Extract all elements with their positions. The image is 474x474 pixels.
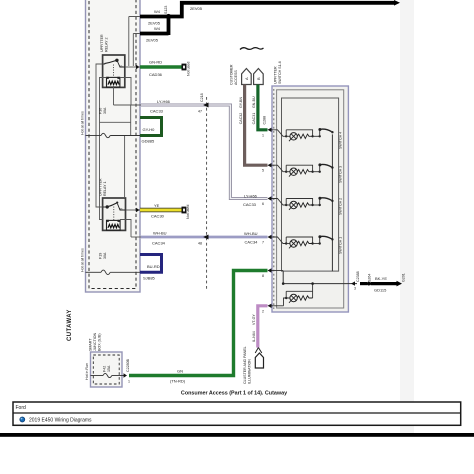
svg-text:15A: 15A — [107, 365, 111, 372]
svg-text:CAC32: CAC32 — [239, 113, 243, 125]
svg-text:2EV05: 2EV05 — [190, 6, 203, 11]
svg-text:(TN-RD): (TN-RD) — [170, 379, 186, 384]
svg-text:2EV05: 2EV05 — [146, 38, 159, 43]
wire WH-BU CAC34 (lavender) K1 coil to switch pin 7 — [131, 231, 268, 246]
break squiggle above customer access — [240, 48, 264, 50]
svg-text:47: 47 — [198, 110, 202, 114]
wire: K2 coil 85 loop to K1 coil 85 — [100, 78, 107, 220]
switch pin 8 connector arrow — [262, 268, 283, 278]
svg-text:30A: 30A — [103, 107, 107, 114]
switch cell 2 (SWITCH 3) lamp L3 — [285, 163, 334, 176]
svg-text:30: 30 — [119, 64, 123, 68]
svg-text:RELAY 2: RELAY 2 — [105, 38, 109, 52]
svg-text:1: 1 — [262, 133, 264, 137]
svg-text:F42: F42 — [103, 366, 107, 372]
connector (not used) on green wire — [182, 64, 187, 71]
svg-text:SMART: SMART — [89, 338, 93, 351]
svg-text:CAC33: CAC33 — [150, 109, 164, 114]
wire CAD36 GN-RD relay K2 output (green, not used) — [125, 60, 191, 78]
svg-text:2019 E450 Wiring Diagrams: 2019 E450 Wiring Diagrams — [29, 417, 92, 423]
svg-text:ILLUMINATION: ILLUMINATION — [248, 359, 252, 384]
relay K2 (UPFITTER RELAY 2) box — [103, 55, 125, 87]
wire: fuse F30 output down to relay K1 contact — [124, 136, 126, 199]
wire CAC31 GN-BU connector B to switch pin 1 — [252, 85, 267, 130]
wire: coil feed jumper to fuse F30 line — [100, 105, 131, 136]
svg-text:CAC31: CAC31 — [252, 113, 256, 125]
svg-text:GN: GN — [177, 369, 183, 374]
smart junction box (SJB) label — [89, 332, 102, 351]
svg-text:Ford: Ford — [16, 405, 27, 411]
ground exit wire pin3 to G201 — [348, 271, 406, 292]
svg-text:RELAY 1: RELAY 1 — [103, 182, 107, 196]
switch cell 1 lever — [319, 129, 321, 136]
ground return path inside switch box — [283, 271, 347, 283]
switch pin 5 connector arrow — [262, 163, 286, 173]
wire 2EV05 off-page (thick black, top) — [167, 0, 400, 17]
svg-text:F19: F19 — [99, 253, 103, 259]
switch pin 7 connector arrow — [262, 235, 286, 245]
svg-text:6: 6 — [262, 202, 264, 206]
svg-text:GY-BN: GY-BN — [239, 97, 243, 108]
svg-text:Not used: Not used — [186, 205, 190, 219]
switch cell 3 resistor — [297, 203, 312, 207]
relay K2 coil — [107, 77, 120, 87]
C218 pin 47 crossing — [198, 93, 209, 113]
inline connector C218 dashed line — [206, 97, 208, 290]
svg-text:SWITCH 3: SWITCH 3 — [339, 166, 343, 183]
svg-text:UPFITTER: UPFITTER — [100, 34, 104, 52]
switch cell 4 resistor — [297, 241, 312, 245]
svg-text:BU-RD: BU-RD — [147, 264, 160, 269]
switch cell 4 (SWITCH 1) lamp L1 — [285, 235, 334, 248]
relay K1 coil — [107, 220, 121, 230]
svg-text:WH-BU: WH-BU — [244, 231, 258, 236]
switch cell 3 (SWITCH 2) lamp L2 — [285, 197, 334, 210]
svg-text:GN-BU: GN-BU — [252, 96, 256, 108]
svg-text:WH-BU: WH-BU — [153, 231, 167, 236]
wire W4 2EV05 feed 1 (thick black) — [140, 9, 169, 26]
svg-text:1: 1 — [128, 380, 130, 384]
svg-text:BK-YE: BK-YE — [375, 276, 387, 281]
wire BU-RD SJB85 jumper loop (navy U) — [140, 255, 162, 281]
fuse F30 30A label — [99, 107, 108, 114]
svg-text:SJB85: SJB85 — [143, 276, 156, 281]
fuse F19 30A label — [99, 252, 108, 259]
connector C2280B label — [126, 358, 130, 383]
switch cell 3 lever — [319, 198, 321, 205]
svg-text:3: 3 — [354, 287, 356, 291]
svg-text:GD885: GD885 — [142, 139, 155, 144]
connector A (customer access) — [242, 69, 252, 85]
fuse F42 15A label — [103, 365, 112, 372]
svg-text:G201: G201 — [402, 273, 406, 282]
svg-text:30: 30 — [119, 207, 123, 211]
footer table — [13, 402, 461, 425]
connector (not used) on yellow wire — [182, 207, 187, 214]
relay K1 pin 30 stub — [118, 204, 126, 210]
switch pin 2 connector arrow — [262, 304, 284, 314]
svg-text:S264: S264 — [367, 274, 371, 282]
relay K2 contact lever — [104, 61, 115, 64]
svg-text:Hot at all times: Hot at all times — [81, 111, 85, 135]
svg-text:Hot at all times: Hot at all times — [81, 248, 85, 272]
junction S123 — [164, 6, 171, 20]
switch pin 6 connector arrow — [262, 196, 286, 206]
illumination lamp cell — [284, 282, 314, 305]
svg-text:CAC34: CAC34 — [245, 239, 259, 244]
svg-text:B: B — [256, 77, 261, 80]
upfitter switch inner box — [277, 90, 344, 308]
wire GN CX431 from SJB to switch pin 8 (green) — [129, 271, 268, 384]
relay K2 plunger dashed link — [113, 65, 115, 78]
switch cell 1 resistor — [297, 134, 312, 138]
relay K1 plunger dashed link — [113, 207, 115, 221]
svg-text:YE: YE — [154, 203, 160, 208]
svg-text:8: 8 — [262, 274, 264, 278]
svg-text:2EV05: 2EV05 — [148, 21, 161, 26]
svg-text:Consumer Access (Part 1 of 14): Consumer Access (Part 1 of 14). Cutaway — [181, 391, 287, 397]
battery junction box (BJB) outer border — [86, 0, 141, 292]
relay K2 label UPFITTER RELAY 2 — [100, 34, 109, 52]
svg-text:CLUSTER AND PANEL: CLUSTER AND PANEL — [243, 346, 247, 384]
svg-text:W4: W4 — [154, 9, 161, 14]
illumination resistor — [297, 296, 312, 300]
bottom black bar — [0, 433, 474, 437]
switch cell 4 lever — [319, 237, 321, 244]
switch cell 2 resistor — [297, 170, 312, 174]
relay K1 label UPFITTER RELAY 1 — [99, 178, 108, 196]
svg-text:F30: F30 — [99, 108, 103, 114]
svg-text:UPFITTER: UPFITTER — [274, 66, 278, 84]
relay K1 (UPFITTER RELAY 1) box — [103, 198, 126, 230]
svg-text:GN-RD: GN-RD — [149, 60, 162, 65]
svg-text:LY-H66: LY-H66 — [244, 194, 258, 199]
upfitter switch cells box — [282, 98, 339, 271]
relay K2 pin 30 stub — [118, 62, 125, 68]
svg-text:VT-GY: VT-GY — [252, 314, 256, 325]
svg-text:W4: W4 — [154, 26, 161, 31]
wire CAC32 GY-BN connector A to switch pin 5 — [239, 85, 268, 166]
wire GN-WD GD885 jumper loop (dark green U) — [140, 118, 162, 144]
fuse F19 30A — [86, 270, 141, 274]
switch bus vertical — [331, 134, 333, 271]
svg-text:CUSTOMER: CUSTOMER — [230, 64, 234, 85]
connector B (customer access) — [254, 69, 264, 85]
svg-text:SWITCH S1-6: SWITCH S1-6 — [278, 61, 282, 84]
svg-text:GY-H0: GY-H0 — [143, 127, 156, 132]
svg-text:LY-H66: LY-H66 — [157, 99, 171, 104]
relay K1 contact lever — [107, 203, 116, 207]
svg-text:CAC30: CAC30 — [151, 214, 165, 219]
upfitter switch S1-6 outer box — [272, 86, 348, 312]
wire YE CAC30 relay K1 output (yellow, not used) — [126, 203, 191, 219]
svg-text:CAD36: CAD36 — [149, 72, 163, 77]
switch pin 1 connector arrow — [262, 128, 286, 138]
fuse F42 15A — [91, 373, 128, 377]
svg-text:CUTAWAY: CUTAWAY — [67, 309, 73, 341]
svg-text:30A: 30A — [103, 252, 107, 259]
wire W4 2EV05 feed 2 (thick black) — [140, 15, 169, 43]
switch cell 2 lever — [319, 165, 321, 172]
svg-text:C288: C288 — [263, 116, 267, 125]
wire: K2 coil 86 to gray wire — [120, 78, 131, 106]
svg-text:BOX (SJB): BOX (SJB) — [98, 333, 102, 351]
svg-text:ACCESS: ACCESS — [234, 70, 238, 85]
svg-text:Hot in Run: Hot in Run — [85, 363, 89, 380]
fuse F30 30A — [86, 133, 141, 137]
wire: K1 coil 86 to lavender wire — [120, 220, 131, 238]
label CUSTOMER ACCESS — [230, 64, 239, 85]
svg-text:5: 5 — [262, 169, 264, 173]
svg-text:JUNCTION: JUNCTION — [93, 332, 97, 351]
wire: K2 switch feed loop to K1 (left vertical) — [96, 64, 103, 207]
svg-text:GD115: GD115 — [374, 288, 387, 293]
svg-text:IL-N64: IL-N64 — [252, 331, 256, 342]
svg-text:CAC33: CAC33 — [243, 202, 257, 207]
svg-text:CAC34: CAC34 — [152, 241, 166, 246]
svg-text:SWITCH 2: SWITCH 2 — [339, 198, 343, 215]
svg-text:7: 7 — [262, 241, 264, 245]
wire: K2 coil bottom to gray wire — [113, 86, 115, 105]
wire LY-H66 CAC33 (gray outlined) from K2 coil to switch pin 6 — [114, 99, 268, 207]
svg-text:48: 48 — [198, 242, 202, 246]
upfitter switch label — [274, 61, 283, 84]
svg-text:SWITCH 4: SWITCH 4 — [339, 132, 343, 149]
svg-text:A: A — [244, 77, 249, 80]
wire W4 2EV05 thin pigtails inside BJB — [129, 17, 140, 67]
svg-text:Not used: Not used — [187, 62, 191, 76]
connector: cluster and panel illumination — [243, 346, 263, 384]
svg-text:SWITCH 1: SWITCH 1 — [339, 237, 343, 254]
svg-text:C2280B: C2280B — [126, 358, 130, 372]
switch cell 1 (SWITCH 4) lamp L4 — [285, 128, 334, 141]
svg-text:C2388: C2388 — [356, 271, 360, 282]
svg-text:S123: S123 — [164, 6, 168, 14]
svg-text:2: 2 — [262, 309, 264, 313]
wire IL-N64 VT-GY (violet) illumination to switch pin 2 — [252, 306, 268, 348]
smart junction box (SJB) — [91, 352, 123, 387]
battery junction box (BJB) inner dashed border — [89, 0, 136, 289]
svg-text:C218: C218 — [200, 93, 204, 102]
